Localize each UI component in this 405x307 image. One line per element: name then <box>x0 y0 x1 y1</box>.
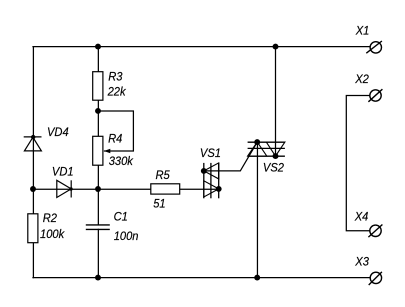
svg-text:22k: 22k <box>107 85 127 99</box>
junction: main rail / left branch <box>30 186 36 192</box>
junction: top rail / center branch <box>95 44 101 50</box>
diode VD4 <box>24 137 42 151</box>
svg-text:C1: C1 <box>114 210 128 224</box>
junction: VS1 upper apex / gate wire <box>201 168 207 174</box>
svg-text:VS1: VS1 <box>200 146 221 160</box>
wire: center vertical branch below C1 to bottom rail <box>97 229 99 277</box>
junction: bottom rail / C1 branch <box>95 275 101 281</box>
svg-text:100n: 100n <box>114 230 139 244</box>
svg-text:R2: R2 <box>43 211 58 225</box>
junction: main rail / center branch <box>95 186 101 192</box>
svg-text:VD1: VD1 <box>52 165 74 179</box>
junction: VD4 cathode bar <box>31 135 35 139</box>
junction: VS2 right triangle apex <box>273 153 279 159</box>
diac VS1 (symmetrical dinistor) <box>204 163 219 198</box>
svg-text:330k: 330k <box>109 155 134 169</box>
junction: VS2 left triangle apex / gate <box>254 139 260 145</box>
svg-text:R5: R5 <box>156 168 171 182</box>
capacitor C1 <box>86 225 110 230</box>
junction: node below R3 / R4 loop <box>95 108 101 114</box>
resistor R4 (variable, 330k) <box>93 136 111 165</box>
wire: bracket connecting terminals X2 and X4 <box>346 96 369 231</box>
resistor R5 <box>151 184 180 194</box>
svg-text:VS2: VS2 <box>263 161 284 175</box>
terminal X2 <box>368 89 382 102</box>
terminal X4 <box>368 225 382 238</box>
terminal X3 <box>369 272 382 285</box>
svg-text:VD4: VD4 <box>47 126 69 140</box>
junction: bottom rail / VS2 lower terminal <box>254 275 260 281</box>
wire: R4 bypass loop from node below R3 to R4 wiper <box>98 111 133 151</box>
resistor R3 <box>93 72 103 101</box>
wire: VS2 lower main terminal from left triangle apex down to bottom rail <box>256 142 258 278</box>
svg-text:X3: X3 <box>354 255 369 269</box>
svg-text:X4: X4 <box>354 210 369 224</box>
junction: top rail / VS2 upper terminal <box>273 44 279 50</box>
svg-text:100k: 100k <box>40 227 65 241</box>
svg-text:51: 51 <box>153 197 165 211</box>
wire: VS2 upper main terminal from top rail down to right triangle apex <box>275 47 277 157</box>
wire: bottom rail from left branch corner to terminal X3 <box>33 277 370 279</box>
wire: main horizontal rail y=189 (left branch through VD1, R5 to VS1 lower apex) <box>33 188 219 190</box>
diode VD1 <box>57 180 71 197</box>
wire: left vertical branch (top rail to bottom rail through VD4 and R2) <box>32 47 34 278</box>
wire: center vertical branch x=98 (top rail through R3, R4 to main rail and C1 top plate) <box>97 47 99 225</box>
triac VS2 (symmetrical trinistor) <box>248 142 285 156</box>
wire: gate link from VS1 upper apex to VS2 <box>204 142 257 171</box>
svg-text:R4: R4 <box>108 132 123 146</box>
svg-text:X2: X2 <box>354 72 369 86</box>
wire: top rail from left branch corner to terminal X1 <box>33 46 369 48</box>
terminal X1 <box>366 41 382 53</box>
junction: VS1 lower apex / R5 wire <box>216 186 222 192</box>
junction: VD1 cathode apex <box>69 187 72 190</box>
resistor R2 <box>28 214 38 243</box>
svg-text:X1: X1 <box>355 24 370 38</box>
svg-text:R3: R3 <box>108 70 123 84</box>
